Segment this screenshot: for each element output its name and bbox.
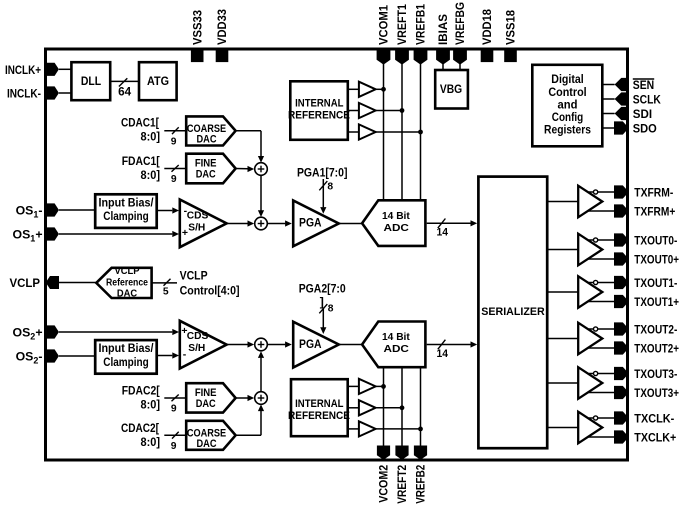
pin VDD18 (top) — [480, 9, 494, 62]
pin SEN — [604, 78, 655, 92]
block INTERNAL REFERENCE 2 — [288, 379, 350, 436]
block VCLP Reference DAC — [96, 266, 151, 299]
svg-text:SDI: SDI — [633, 107, 652, 121]
svg-text:VDD33: VDD33 — [215, 9, 229, 45]
block FINE DAC 1 — [186, 154, 235, 184]
wire adder B2 to PGA2 — [267, 341, 292, 347]
svg-text:TXOUT2-: TXOUT2- — [634, 322, 677, 336]
wire serializer to TXOUT3 driver — [548, 382, 578, 384]
svg-text:Input Bias/: Input Bias/ — [99, 196, 155, 209]
svg-text:SDO: SDO — [633, 122, 657, 136]
pin INCLK+ — [5, 63, 59, 77]
block COARSE DAC 2 — [186, 421, 235, 450]
converter 14-bit ADC 1 — [362, 200, 425, 246]
wire FINE DAC2 to adder A2 — [236, 395, 255, 401]
svg-text:PGA2[7:0: PGA2[7:0 — [299, 281, 346, 295]
wire PGA1 to ADC1 — [339, 223, 363, 225]
svg-text:9: 9 — [171, 174, 177, 185]
wire VREFT1 rail — [401, 62, 403, 200]
svg-text:9: 9 — [171, 404, 177, 415]
svg-text:DAC: DAC — [196, 398, 216, 410]
svg-text:TXOUT3+: TXOUT3+ — [634, 386, 679, 400]
converter 14-bit ADC 2 — [362, 322, 425, 368]
wire PGA2 to ADC2 — [339, 344, 363, 346]
wire CDS2 to adder B2 — [227, 341, 255, 347]
svg-text:REFERENCE: REFERENCE — [288, 110, 350, 122]
pin VDD33 (top) — [215, 9, 229, 62]
svg-text:CDAC2[: CDAC2[ — [121, 421, 159, 435]
svg-text:VCLP: VCLP — [180, 269, 208, 283]
wire PGA2 gain bus 8 — [319, 303, 333, 334]
wire VCLP control bus 5 — [152, 279, 177, 298]
wire INCLK+ to DLL — [59, 68, 71, 70]
svg-text:VCOM1: VCOM1 — [377, 5, 391, 45]
wire CDAC1 bus — [164, 127, 186, 147]
svg-text:Clamping: Clamping — [103, 356, 149, 369]
svg-text:14 Bit: 14 Bit — [382, 332, 410, 343]
svg-text:VCLP: VCLP — [10, 276, 41, 290]
svg-text:CDAC1[: CDAC1[ — [121, 116, 159, 130]
label VCLP Control[4:0] — [180, 269, 240, 298]
block Input Bias/Clamping 2 — [95, 340, 157, 374]
svg-text:SEN: SEN — [633, 78, 654, 92]
block CDS S/H 1 — [180, 200, 227, 248]
svg-text:]: ] — [320, 295, 324, 309]
wire DLL to ATG bus 64 — [110, 78, 139, 98]
svg-text:Reference: Reference — [106, 278, 148, 289]
svg-text:-: - — [183, 349, 187, 361]
pin TXOUT2- — [614, 322, 677, 336]
wire VREFB1 rail — [420, 62, 422, 200]
pin INCLK- — [7, 86, 59, 100]
svg-text:VREFB2: VREFB2 — [414, 465, 428, 504]
pin SCLK — [604, 92, 661, 106]
wire ADC2 to serializer bus 14 — [427, 340, 478, 360]
svg-text:Control[4:0]: Control[4:0] — [180, 283, 240, 297]
svg-text:TXFRM+: TXFRM+ — [634, 204, 675, 218]
driver LVDS TXOUT3 — [578, 367, 614, 399]
wire CDS1 to adder B1 — [227, 220, 255, 226]
wire INCLK- to DLL — [59, 92, 71, 94]
label FDAC2[8:0] — [122, 384, 160, 412]
driver LVDS TXOUT0 — [578, 234, 614, 266]
driver LVDS TXOUT2 — [578, 323, 614, 355]
svg-text:Input Bias/: Input Bias/ — [99, 342, 155, 355]
svg-text:14 Bit: 14 Bit — [382, 211, 410, 222]
block CDS S/H 2 — [180, 321, 227, 369]
svg-text:64: 64 — [118, 87, 132, 99]
svg-text:DLL: DLL — [81, 74, 102, 88]
wire FDAC2 bus — [164, 395, 186, 415]
svg-text:PGA: PGA — [299, 217, 322, 230]
pin TXCLK+ — [614, 430, 676, 444]
driver LVDS TXOUT1 — [578, 276, 614, 308]
svg-text:PGA: PGA — [299, 338, 322, 351]
wire VREFB2 rail — [420, 368, 422, 448]
pin TXFRM- — [614, 185, 673, 199]
pin OS2+ — [13, 325, 59, 341]
wire Input Bias 2 to CDS 2 — [158, 352, 179, 358]
label FDAC1[8:0] — [122, 154, 160, 182]
pin TXOUT0+ — [614, 252, 679, 266]
wire OS2- to Input Bias 2 — [59, 355, 94, 357]
pin VSS18 (top) — [504, 10, 518, 62]
svg-text:INTERNAL: INTERNAL — [295, 98, 344, 110]
svg-text:8:0]: 8:0] — [141, 170, 161, 182]
svg-text:Registers: Registers — [544, 123, 591, 137]
svg-text:S/H: S/H — [188, 343, 205, 354]
svg-text:TXCLK+: TXCLK+ — [634, 430, 676, 444]
svg-text:9: 9 — [171, 441, 177, 452]
block Digital Control and Config Registers — [532, 65, 602, 147]
wire VREFT2 rail — [401, 368, 403, 448]
svg-text:OS1-: OS1- — [16, 204, 43, 220]
wire OS1- to Input Bias 1 — [59, 209, 94, 211]
svg-text:TXOUT1+: TXOUT1+ — [634, 295, 679, 309]
svg-text:OS1+: OS1+ — [13, 228, 43, 244]
svg-text:VSS33: VSS33 — [190, 10, 204, 45]
svg-text:ATG: ATG — [147, 74, 169, 88]
wire serializer to TXCLK driver — [548, 427, 578, 429]
svg-text:OS2-: OS2- — [16, 350, 43, 366]
block SERIALIZER — [478, 177, 547, 449]
svg-text:VBG: VBG — [440, 82, 462, 96]
pin VCLP — [10, 276, 60, 290]
buffer reference1-3 — [349, 124, 423, 139]
block ATG — [139, 62, 177, 100]
pin VREFB1 (top) — [414, 4, 428, 65]
svg-text:SCLK: SCLK — [633, 93, 661, 107]
buffer reference2-1 — [349, 379, 386, 394]
svg-text:5: 5 — [163, 287, 169, 298]
pin OS1+ — [13, 227, 59, 243]
block VBG — [435, 70, 468, 109]
block COARSE DAC 1 — [186, 116, 235, 145]
wire adder A2 to adder B2 — [258, 351, 264, 392]
driver LVDS TXCLK — [578, 412, 614, 444]
svg-text:DAC: DAC — [197, 134, 217, 146]
wire serializer to TXOUT0 driver — [548, 249, 578, 251]
wire adder B1 to PGA1 — [267, 220, 292, 226]
svg-text:DAC: DAC — [196, 168, 216, 180]
svg-text:9: 9 — [171, 136, 177, 147]
svg-text:14: 14 — [437, 227, 449, 239]
driver LVDS TXFRM — [578, 186, 614, 218]
adder B2 signal+offset ch2 — [255, 338, 268, 351]
buffer reference2-2 — [349, 400, 404, 415]
pin VREFBG (top) — [453, 2, 467, 65]
block DLL — [71, 62, 110, 100]
pin IBIAS (top) — [436, 14, 450, 65]
pin VCOM1 (top) — [377, 5, 391, 65]
wire ADC1 to serializer bus 14 — [427, 219, 478, 239]
svg-text:Clamping: Clamping — [103, 210, 149, 223]
svg-text:VSS18: VSS18 — [504, 10, 518, 45]
svg-text:REFERENCE: REFERENCE — [288, 410, 350, 422]
pin VREFT1 (top) — [395, 4, 409, 65]
pin VSS33 (top) — [190, 10, 204, 62]
pin SDI — [604, 107, 653, 121]
wire CDAC2 bus — [164, 432, 186, 452]
block Input Bias/Clamping 1 — [95, 194, 157, 228]
adder B1 signal+offset ch1 — [255, 217, 268, 230]
wire COARSE DAC1 to adder A1 — [236, 131, 265, 163]
label CDAC1[8:0] — [121, 116, 160, 144]
svg-text:PGA1[7:0]: PGA1[7:0] — [297, 166, 348, 180]
svg-text:TXOUT1-: TXOUT1- — [634, 276, 677, 290]
pin TXOUT2+ — [614, 341, 679, 355]
svg-text:14: 14 — [437, 348, 449, 360]
wire serializer to TXFRM driver — [548, 201, 578, 203]
svg-text:INTERNAL: INTERNAL — [295, 398, 344, 410]
pin VREFB2 (bottom) — [414, 446, 428, 504]
wire OS2+ to CDS 2 — [59, 329, 179, 335]
wire VREFBG to VBG — [459, 63, 461, 70]
pin OS1- — [16, 203, 59, 219]
pin TXCLK- — [614, 411, 674, 425]
pin TXOUT1+ — [614, 295, 679, 309]
block FINE DAC 2 — [186, 383, 235, 412]
svg-text:INCLK-: INCLK- — [7, 87, 41, 101]
svg-text:TXOUT2+: TXOUT2+ — [634, 341, 679, 355]
svg-text:CDS: CDS — [187, 211, 209, 222]
pin VREFT2 (bottom) — [395, 446, 409, 504]
svg-text:VREFT2: VREFT2 — [395, 465, 409, 504]
svg-text:TXOUT3-: TXOUT3- — [634, 367, 677, 381]
svg-text:+: + — [182, 227, 188, 239]
svg-text:8:0]: 8:0] — [141, 400, 161, 412]
svg-text:FDAC1[: FDAC1[ — [122, 154, 160, 168]
svg-text:8:0]: 8:0] — [141, 437, 161, 449]
wire VCLP DAC to pin — [59, 282, 96, 284]
pin SDO — [604, 121, 658, 135]
wire serializer to TXOUT1 driver — [548, 291, 578, 293]
wire PGA1 gain bus 8 — [319, 179, 333, 214]
pin OS2- — [16, 349, 59, 365]
svg-text:TXFRM-: TXFRM- — [634, 185, 673, 199]
pin TXOUT1- — [614, 276, 677, 290]
svg-text:CDS: CDS — [187, 331, 209, 342]
svg-text:VREFT1: VREFT1 — [395, 4, 409, 45]
pin TXOUT3- — [614, 367, 677, 381]
amplifier PGA1 — [293, 201, 339, 247]
svg-text:VREFBG: VREFBG — [453, 2, 467, 45]
wire IBIAS to VBG — [442, 63, 444, 70]
svg-text:OS2+: OS2+ — [13, 326, 43, 342]
buffer reference1-1 — [349, 82, 386, 97]
wire FDAC1 bus — [164, 165, 186, 185]
svg-text:IBIAS: IBIAS — [436, 14, 450, 45]
pin TXFRM+ — [614, 204, 675, 218]
wire VCOM2 rail — [383, 368, 385, 448]
wire Input Bias 1 to CDS 1 — [158, 207, 179, 213]
svg-text:VCOM2: VCOM2 — [377, 465, 391, 503]
svg-text:TXOUT0+: TXOUT0+ — [634, 252, 679, 266]
svg-text:8: 8 — [327, 181, 333, 192]
block INTERNAL REFERENCE 1 — [288, 81, 350, 140]
svg-text:FDAC2[: FDAC2[ — [122, 384, 160, 398]
pin TXOUT3+ — [614, 386, 679, 400]
svg-text:S/H: S/H — [188, 223, 205, 234]
buffer reference2-3 — [349, 421, 423, 436]
label PGA1[7:0] — [297, 166, 348, 180]
buffer reference1-2 — [349, 103, 404, 118]
svg-text:DAC: DAC — [117, 289, 137, 300]
adder A2 coarse+fine ch2 — [255, 392, 268, 405]
label CDAC2[8:0] — [121, 421, 160, 449]
svg-text:ADC: ADC — [384, 223, 410, 234]
svg-text:TXCLK-: TXCLK- — [634, 411, 674, 425]
svg-text:DAC: DAC — [197, 438, 217, 450]
svg-text:TXOUT0-: TXOUT0- — [634, 233, 677, 247]
svg-text:VREFB1: VREFB1 — [414, 4, 428, 45]
svg-text:VCLP: VCLP — [115, 266, 140, 277]
label PGA2[7:0] — [299, 281, 346, 308]
wire serializer to TXOUT2 driver — [548, 338, 578, 340]
wire adder A1 to adder B1 — [258, 175, 264, 217]
adder A1 coarse+fine ch1 — [255, 163, 268, 176]
svg-text:8:0]: 8:0] — [141, 132, 161, 144]
wire COARSE DAC2 to adder A2 — [236, 404, 265, 435]
chip boundary — [46, 49, 628, 460]
wire OS1+ to CDS 1 — [59, 231, 179, 237]
pin VCOM2 (bottom) — [377, 446, 391, 503]
svg-text:SERIALIZER: SERIALIZER — [481, 306, 545, 318]
svg-text:INCLK+: INCLK+ — [5, 63, 41, 77]
svg-text:ADC: ADC — [384, 344, 410, 355]
wire VCOM1 rail — [383, 62, 385, 200]
svg-text:VDD18: VDD18 — [480, 9, 494, 45]
wire FINE DAC1 to adder A1 — [236, 166, 255, 172]
pin TXOUT0- — [614, 233, 677, 247]
svg-text:8: 8 — [328, 303, 334, 314]
amplifier PGA2 — [293, 322, 339, 368]
